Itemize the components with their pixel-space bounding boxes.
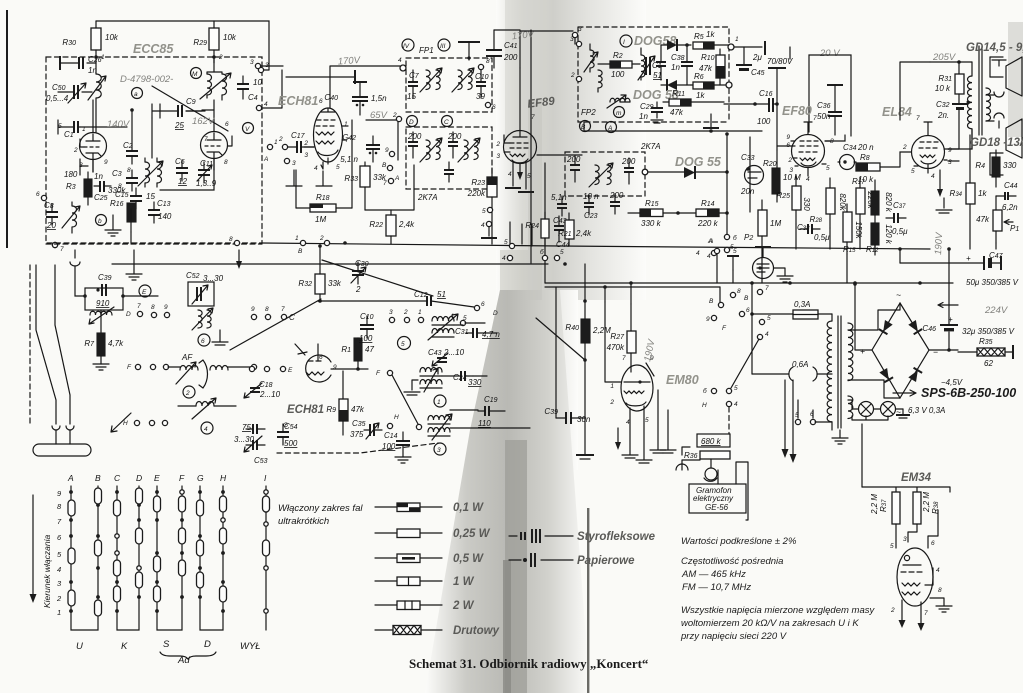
- svg-text:V: V: [245, 126, 250, 133]
- svg-text:15: 15: [146, 192, 155, 201]
- switch matrix column letters: [67, 473, 267, 483]
- svg-text:2,2 M: 2,2 M: [922, 492, 931, 513]
- tube EF89: [504, 131, 537, 164]
- resistor R9 47k: [339, 399, 348, 421]
- resistor R6: [693, 82, 714, 89]
- svg-text:150k: 150k: [854, 221, 863, 239]
- svg-text:170V: 170V: [337, 55, 362, 68]
- svg-text:5: 5: [767, 315, 771, 322]
- svg-text:H: H: [220, 473, 227, 483]
- node D: [407, 116, 418, 127]
- svg-text:SPS-6B-250-100: SPS-6B-250-100: [921, 386, 1016, 400]
- svg-text:4: 4: [734, 401, 738, 408]
- coil set 1: [420, 368, 442, 373]
- node 6: [485, 102, 490, 107]
- svg-text:8: 8: [229, 236, 233, 243]
- svg-text:4: 4: [502, 255, 506, 262]
- dashed box bottom edge: [46, 243, 262, 245]
- limiter tube: [753, 258, 774, 279]
- svg-text:2,2 M: 2,2 M: [870, 494, 879, 515]
- svg-text:R2: R2: [613, 51, 623, 60]
- svg-text:R24: R24: [525, 221, 539, 230]
- svg-text:D: D: [493, 310, 498, 317]
- resistor R20 10M: [772, 168, 780, 194]
- ground: [126, 250, 142, 280]
- node a: [132, 88, 143, 99]
- svg-text:2 W: 2 W: [452, 600, 475, 612]
- svg-text:2: 2: [609, 399, 614, 406]
- resistor R14: [696, 209, 719, 217]
- direction arrow: [32, 495, 34, 595]
- wire cathode down: [296, 120, 352, 208]
- svg-text:2: 2: [902, 144, 907, 151]
- svg-text:R35: R35: [979, 337, 993, 346]
- dashed feeder: [29, 265, 31, 425]
- wire EF89 grid: [537, 154, 582, 156]
- wire feeder left: [36, 265, 56, 424]
- svg-text:E: E: [288, 367, 293, 374]
- capacitor C25: [100, 181, 104, 192]
- node 4sw: [757, 334, 762, 339]
- svg-text:0,6A: 0,6A: [792, 360, 808, 369]
- svg-text:1n: 1n: [639, 112, 648, 121]
- node 3: [258, 67, 263, 72]
- node c2: [183, 386, 195, 398]
- EM34 pins top: [896, 510, 938, 548]
- R32 33k: [315, 274, 325, 294]
- wire speakers: [990, 57, 1003, 175]
- svg-text:H: H: [394, 414, 399, 421]
- svg-text:C13: C13: [157, 199, 171, 208]
- svg-text:8: 8: [737, 288, 741, 295]
- svg-text:220 k: 220 k: [697, 219, 719, 228]
- svg-text:1,3..9: 1,3..9: [196, 179, 217, 188]
- svg-text:1: 1: [610, 383, 614, 390]
- svg-text:ECH81: ECH81: [278, 94, 318, 108]
- svg-text:47k: 47k: [670, 108, 684, 117]
- svg-text:6: 6: [319, 354, 323, 361]
- svg-text:M: M: [192, 71, 198, 78]
- svg-text:3: 3: [903, 536, 907, 543]
- resistor R7: [97, 333, 105, 356]
- ground: [212, 330, 228, 345]
- node 6c: [724, 234, 729, 239]
- svg-text:10k: 10k: [105, 33, 119, 42]
- svg-text:przy napięciu sieci 220 V: przy napięciu sieci 220 V: [680, 631, 788, 642]
- coil L7: [198, 310, 211, 328]
- triode U1a: [80, 133, 107, 160]
- svg-text:1: 1: [735, 36, 739, 43]
- svg-text:6: 6: [201, 338, 205, 345]
- node 3b: [255, 63, 260, 68]
- svg-text:C44: C44: [1004, 181, 1018, 190]
- svg-text:70/80V: 70/80V: [767, 57, 793, 66]
- node b: [711, 388, 716, 393]
- ground R7: [93, 364, 109, 370]
- resistor R22: [386, 215, 396, 236]
- resistor R29: [209, 28, 219, 50]
- svg-text:51: 51: [437, 290, 446, 299]
- svg-text:Częstotliwość pośrednia: Częstotliwość pośrednia: [681, 556, 783, 567]
- svg-text:Drutowy: Drutowy: [453, 625, 500, 637]
- wire 2u to rail: [789, 47, 791, 59]
- svg-text:1,5n: 1,5n: [371, 94, 387, 103]
- resistor R15: [640, 209, 663, 217]
- svg-text:2: 2: [278, 136, 283, 143]
- wire em80 cathode: [682, 447, 690, 455]
- svg-text:+: +: [966, 254, 971, 263]
- wire EL84 plate to OT: [948, 129, 972, 149]
- svg-text:C16: C16: [759, 89, 773, 98]
- node 6: [41, 195, 46, 200]
- svg-text:woltomierzem 20 kΩ/V na zak: woltomierzem 20 kΩ/V na zakresach U i K: [681, 618, 859, 629]
- node o2: [726, 82, 732, 88]
- ground extra: [660, 410, 676, 453]
- resistor R4 330: [992, 157, 1000, 177]
- svg-text:7: 7: [916, 115, 920, 122]
- wire EF80 plate to C36: [825, 135, 845, 141]
- svg-text:0,25 W: 0,25 W: [453, 528, 491, 540]
- coil T3a: [426, 140, 440, 160]
- resistor R33: [360, 166, 370, 187]
- column E: [157, 486, 182, 630]
- node 2 in: [576, 76, 581, 81]
- svg-text:C42: C42: [342, 133, 356, 142]
- svg-text:Kierunek włączania: Kierunek włączania: [42, 534, 52, 608]
- svg-text:R33: R33: [344, 174, 358, 183]
- svg-text:C41: C41: [504, 41, 518, 50]
- wire C41 top: [494, 29, 520, 31]
- svg-text:C44: C44: [556, 240, 570, 249]
- svg-text:D: D: [126, 311, 131, 318]
- svg-text:180: 180: [64, 170, 78, 179]
- node I: [620, 35, 632, 47]
- node 6d: [474, 305, 479, 310]
- svg-text:47k: 47k: [351, 405, 365, 414]
- triode section: [306, 355, 331, 382]
- svg-text:7: 7: [383, 180, 387, 187]
- tube EF80: [792, 135, 825, 168]
- resistor 150k: [843, 212, 852, 242]
- wire drop A-term: [717, 254, 733, 283]
- svg-text:162V: 162V: [192, 116, 216, 127]
- svg-text:+: +: [860, 346, 865, 356]
- dashed box ECC85: [46, 57, 262, 243]
- svg-text:C45: C45: [751, 68, 765, 77]
- svg-text:B: B: [709, 298, 714, 305]
- svg-text:32μ 350/385 V: 32μ 350/385 V: [962, 327, 1015, 336]
- tube EM34: [897, 548, 933, 606]
- resistor R27: [627, 331, 636, 353]
- svg-text:4: 4: [936, 567, 940, 574]
- resistor R12b 120k: [871, 223, 879, 245]
- svg-text:A: A: [263, 156, 268, 163]
- wire 20V: [809, 55, 851, 136]
- transformer T4: [590, 44, 594, 72]
- svg-text:3: 3: [437, 447, 441, 454]
- wire DOG55 junction: [726, 233, 728, 237]
- svg-text:1: 1: [295, 235, 299, 242]
- svg-text:AF: AF: [181, 353, 193, 362]
- node C: [442, 116, 453, 127]
- svg-text:WYŁ: WYŁ: [240, 641, 261, 652]
- node 1 bus: [300, 240, 305, 245]
- svg-text:4: 4: [931, 173, 935, 180]
- svg-text:6: 6: [492, 104, 496, 111]
- svg-text:500: 500: [284, 439, 298, 448]
- wire bridge minus: [929, 349, 958, 351]
- wire main bus B1: [262, 243, 930, 249]
- svg-text:EF80: EF80: [782, 104, 812, 118]
- ground: [105, 215, 121, 236]
- svg-text:Wszystkie napięcia mierzone: Wszystkie napięcia mierzone względem mas…: [681, 605, 875, 616]
- svg-text:47: 47: [365, 345, 374, 354]
- resistor 2,2M: [581, 319, 590, 343]
- node 3 in: [576, 41, 581, 46]
- svg-text:2: 2: [392, 112, 397, 119]
- svg-text:B: B: [744, 295, 749, 302]
- svg-text:7: 7: [204, 136, 208, 143]
- brace Ad: [160, 652, 216, 659]
- svg-text:R14: R14: [701, 199, 715, 208]
- svg-text:C34: C34: [843, 143, 857, 152]
- coil L3 transformer: [145, 162, 162, 183]
- resistor R24: [541, 219, 549, 238]
- speaker 1: [994, 92, 1004, 97]
- svg-text:FM — 10,7 MHz: FM — 10,7 MHz: [682, 582, 751, 593]
- svg-text:D: D: [136, 473, 142, 483]
- svg-text:C25: C25: [94, 193, 108, 202]
- svg-text:3: 3: [250, 59, 254, 66]
- svg-text:2: 2: [303, 140, 308, 147]
- svg-text:4: 4: [481, 222, 485, 229]
- svg-text:2...10: 2...10: [443, 348, 465, 357]
- svg-text:C17: C17: [291, 131, 306, 140]
- svg-text:330 k: 330 k: [641, 219, 662, 228]
- svg-text:200: 200: [566, 155, 581, 164]
- ground C14: [395, 457, 411, 463]
- svg-text:ECH81: ECH81: [287, 404, 324, 416]
- svg-text:R20: R20: [763, 159, 777, 168]
- node 1: [728, 44, 734, 50]
- tube ECH81: [314, 108, 343, 162]
- diode D2: [667, 80, 677, 90]
- svg-text:680 k: 680 k: [701, 437, 722, 446]
- svg-text:2: 2: [319, 235, 324, 242]
- tube EL84: [912, 136, 945, 169]
- resistor R38: [913, 492, 921, 524]
- svg-text:330: 330: [802, 197, 811, 211]
- svg-text:200: 200: [447, 132, 462, 141]
- contacts D: [136, 488, 143, 599]
- svg-text:C38: C38: [671, 53, 685, 62]
- svg-text:2μ: 2μ: [752, 53, 762, 62]
- svg-text:2K7A: 2K7A: [417, 193, 438, 202]
- svg-text:C40: C40: [324, 93, 338, 102]
- node 9: [711, 315, 716, 320]
- node 4 top: [400, 65, 406, 71]
- svg-text:b: b: [98, 218, 102, 225]
- svg-text:9: 9: [251, 306, 255, 313]
- svg-text:D-4798-002-: D-4798-002-: [120, 74, 173, 85]
- contacts C: [114, 490, 121, 613]
- diode B4: [908, 368, 922, 383]
- resistor R11: [669, 99, 691, 106]
- wire triode links: [80, 104, 214, 175]
- node 1: [267, 144, 272, 149]
- wire diagonal b: [322, 260, 433, 296]
- svg-text:E: E: [154, 473, 160, 483]
- coil set 3: [428, 416, 450, 421]
- wire 56 leads: [798, 400, 813, 418]
- svg-text:3...30: 3...30: [234, 435, 255, 444]
- svg-text:9: 9: [948, 147, 952, 154]
- resistor 680k box: [697, 434, 730, 447]
- svg-text:6: 6: [786, 142, 790, 149]
- dashed box FP1: [406, 58, 492, 112]
- node 8: [478, 64, 483, 69]
- svg-text:1: 1: [418, 309, 422, 316]
- wire det bus y131: [584, 122, 762, 131]
- svg-text:4,7k: 4,7k: [108, 339, 124, 348]
- svg-text:R27: R27: [610, 332, 625, 341]
- svg-text:C30: C30: [355, 259, 369, 268]
- variometer arrow: [199, 360, 208, 388]
- wires tuner out: [442, 323, 530, 428]
- svg-text:DOG 55: DOG 55: [675, 155, 722, 169]
- wire bridge plus: [855, 284, 872, 350]
- node 6F: [739, 311, 744, 316]
- node 5g: [487, 207, 492, 212]
- svg-text:EM80: EM80: [666, 373, 699, 387]
- jack: [676, 464, 688, 470]
- legend resistor 1W: [375, 580, 442, 582]
- svg-text:0,1 W: 0,1 W: [453, 502, 484, 514]
- svg-text:6: 6: [746, 307, 750, 314]
- resistor R31: [955, 74, 964, 94]
- svg-text:47k: 47k: [976, 215, 990, 224]
- svg-text:2,2M: 2,2M: [592, 326, 611, 335]
- svg-text:б: б: [703, 387, 707, 395]
- node 3: [572, 32, 577, 37]
- node 4b: [726, 401, 731, 406]
- svg-text:1k: 1k: [978, 189, 987, 198]
- svg-text:ultrakrótkich: ultrakrótkich: [278, 516, 329, 527]
- svg-text:m: m: [616, 110, 622, 117]
- node 5 circ: [398, 337, 411, 350]
- svg-text:47k: 47k: [699, 64, 713, 73]
- electrolytic C45: [743, 47, 745, 64]
- legend resistor 0,25W: [375, 532, 442, 534]
- svg-text:8: 8: [151, 304, 155, 311]
- svg-text:elektryczny: elektryczny: [693, 494, 734, 503]
- legend resistor 2W: [375, 604, 442, 606]
- svg-text:C4: C4: [248, 93, 258, 102]
- dashed box DOG58: [578, 27, 729, 122]
- svg-text:224V: 224V: [984, 305, 1009, 316]
- svg-text:100: 100: [359, 334, 373, 343]
- svg-text:140V: 140V: [107, 119, 131, 130]
- capacitor C43: [554, 226, 564, 230]
- capacitor C41: [486, 50, 502, 56]
- resistor R12 820k: [871, 191, 879, 215]
- svg-text:10 k: 10 k: [935, 84, 951, 93]
- svg-text:8: 8: [224, 159, 228, 166]
- svg-text:R11: R11: [672, 89, 685, 98]
- resistor R2: [610, 61, 632, 68]
- svg-text:R15: R15: [645, 199, 659, 208]
- svg-text:C23: C23: [584, 211, 598, 220]
- coil L2: [213, 57, 215, 72]
- wire triode2 cathode net: [131, 170, 214, 243]
- coil T2a: [426, 70, 440, 90]
- svg-text:5: 5: [826, 165, 830, 172]
- resistor R23: [487, 177, 497, 197]
- node E1: [139, 285, 151, 297]
- svg-text:50μ 350/385 V: 50μ 350/385 V: [966, 278, 1019, 287]
- svg-text:4: 4: [696, 250, 700, 257]
- capacitor C19: [444, 170, 454, 174]
- svg-text:4: 4: [57, 565, 61, 574]
- capacitor C1t: [646, 57, 650, 75]
- svg-text:C50: C50: [52, 83, 66, 92]
- row C contacts: [251, 314, 256, 319]
- resistor R10: [716, 55, 725, 78]
- column G: [200, 486, 223, 630]
- svg-text:5: 5: [401, 341, 405, 348]
- svg-text:9: 9: [333, 364, 337, 371]
- svg-text:330: 330: [1003, 161, 1017, 170]
- transformer secondary: [986, 88, 991, 121]
- arrow down: [617, 428, 619, 443]
- svg-text:4: 4: [765, 331, 769, 338]
- svg-text:б: б: [733, 234, 737, 242]
- svg-text:6,3 V 0,3A: 6,3 V 0,3A: [908, 406, 945, 415]
- resistor R8: [856, 163, 880, 171]
- svg-text:75: 75: [242, 423, 251, 432]
- svg-text:б: б: [540, 248, 544, 256]
- wire bus B3: [545, 282, 953, 284]
- transformer core: [838, 316, 841, 428]
- svg-text:C32: C32: [936, 100, 950, 109]
- coil set 5: [432, 317, 454, 322]
- svg-text:C29: C29: [640, 102, 654, 111]
- svg-text:6: 6: [36, 191, 40, 198]
- svg-text:4: 4: [398, 57, 402, 64]
- node 7 lim: [757, 289, 762, 294]
- chassis: [710, 114, 712, 127]
- svg-text:3: 3: [570, 36, 574, 43]
- svg-text:R29: R29: [193, 38, 207, 47]
- svg-text:1: 1: [82, 126, 86, 133]
- contacts A: [68, 490, 75, 613]
- node 8: [730, 292, 735, 297]
- legend cap paper: [509, 559, 573, 561]
- bottom labels: [76, 639, 261, 666]
- svg-text:E: E: [142, 289, 147, 296]
- triode U1b: [201, 132, 228, 159]
- svg-text:EM34: EM34: [901, 472, 932, 484]
- svg-text:C9: C9: [186, 97, 196, 106]
- svg-text:A: A: [707, 238, 712, 245]
- svg-text:375: 375: [350, 430, 364, 439]
- capacitor C10: [476, 82, 486, 86]
- svg-text:5: 5: [890, 543, 894, 550]
- speaker 2: [994, 113, 1004, 118]
- svg-text:GD14,5 - 9,5/(3: GD14,5 - 9,5/(3: [966, 42, 1023, 54]
- svg-text:9: 9: [650, 355, 654, 362]
- svg-text:6: 6: [225, 121, 229, 128]
